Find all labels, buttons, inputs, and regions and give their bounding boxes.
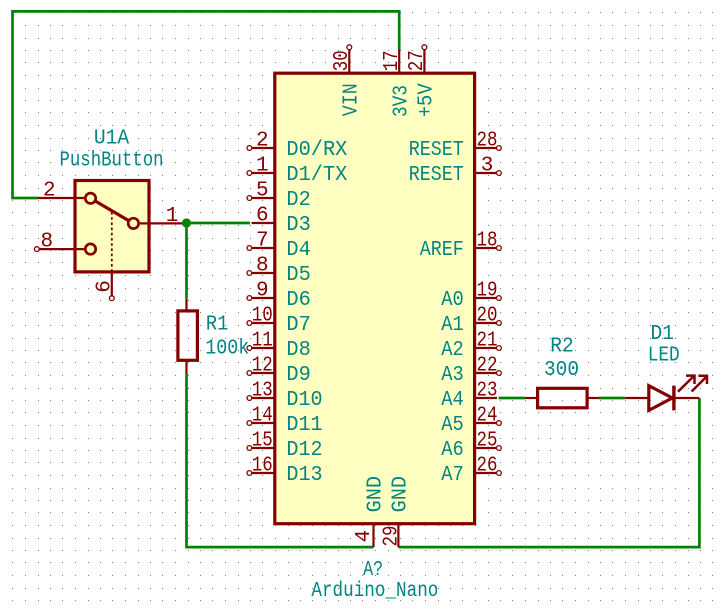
Arduino pin 19 (A0) xyxy=(441,279,501,312)
Arduino pin 16 (D13) xyxy=(247,454,323,487)
Arduino pin 21 (A2) xyxy=(441,329,501,362)
svg-text:300: 300 xyxy=(544,359,579,382)
svg-text:26: 26 xyxy=(477,454,498,477)
svg-text:D6: D6 xyxy=(286,289,310,312)
svg-text:23: 23 xyxy=(477,379,498,402)
Arduino pin 7 (D4) xyxy=(247,229,311,262)
Arduino pin 4 (GND) xyxy=(353,476,388,547)
svg-text:20: 20 xyxy=(477,304,498,327)
Arduino pin 1 (D1/TX) xyxy=(247,154,348,187)
svg-text:A4: A4 xyxy=(441,389,464,412)
svg-text:D1/TX: D1/TX xyxy=(286,164,347,187)
svg-text:+5V: +5V xyxy=(416,83,439,117)
svg-text:9: 9 xyxy=(256,279,269,302)
Arduino pin 25 (A6) xyxy=(441,429,501,462)
svg-text:D11: D11 xyxy=(286,414,322,437)
svg-text:16: 16 xyxy=(252,454,273,477)
svg-text:U1A: U1A xyxy=(94,127,130,150)
svg-text:GND: GND xyxy=(390,476,413,513)
Arduino pin 28 (RESET) xyxy=(409,129,502,162)
svg-text:D7: D7 xyxy=(286,314,310,337)
wire junction node down to R1 top xyxy=(185,223,188,298)
U1A pin 2 xyxy=(38,179,85,202)
svg-text:2: 2 xyxy=(256,129,269,152)
svg-text:PushButton: PushButton xyxy=(60,150,164,173)
Arduino pin 27 (+5V) xyxy=(406,45,439,118)
svg-text:D5: D5 xyxy=(286,264,310,287)
svg-text:100k: 100k xyxy=(205,337,249,360)
Arduino pin 8 (D5) xyxy=(247,254,311,287)
svg-text:7: 7 xyxy=(256,229,269,252)
U1A pin 6 xyxy=(94,272,117,301)
wire Arduino A4 pin 23 to R2 left xyxy=(499,397,526,400)
svg-text:D10: D10 xyxy=(286,389,322,412)
U1A pin 8 xyxy=(34,230,84,253)
svg-text:21: 21 xyxy=(477,329,498,352)
Arduino pin 6 (D3) xyxy=(252,204,311,237)
Arduino pin 10 (D7) xyxy=(247,304,311,337)
svg-text:AREF: AREF xyxy=(420,239,464,262)
svg-text:11: 11 xyxy=(252,329,273,352)
svg-text:8: 8 xyxy=(40,230,53,253)
svg-text:A0: A0 xyxy=(441,289,464,312)
U1A pin 1 xyxy=(140,205,187,228)
Arduino pin 29 (GND) xyxy=(381,476,413,547)
Arduino pin 20 (A1) xyxy=(441,304,501,337)
svg-text:A?: A? xyxy=(363,559,383,582)
resistor R1 xyxy=(178,298,198,373)
svg-text:D13: D13 xyxy=(286,464,322,487)
Arduino pin 3 (RESET) xyxy=(409,154,502,187)
Arduino pin 24 (A5) xyxy=(441,404,501,437)
svg-text:15: 15 xyxy=(252,429,273,452)
svg-text:1: 1 xyxy=(256,154,269,177)
svg-text:29: 29 xyxy=(381,526,404,547)
Arduino pin 18 (AREF) xyxy=(420,229,502,262)
wire junction node to Arduino D3 pin 6 xyxy=(187,222,251,225)
svg-text:24: 24 xyxy=(477,404,498,427)
svg-text:D9: D9 xyxy=(286,364,310,387)
svg-text:19: 19 xyxy=(477,279,498,302)
Arduino pin 11 (D8) xyxy=(247,329,311,362)
Arduino pin 5 (D2) xyxy=(247,179,311,212)
svg-text:D2: D2 xyxy=(286,189,310,212)
svg-text:27: 27 xyxy=(406,50,429,71)
svg-text:D8: D8 xyxy=(286,339,310,362)
svg-text:D4: D4 xyxy=(286,239,310,262)
wire R2 right to LED D1 anode xyxy=(599,397,625,400)
svg-text:2: 2 xyxy=(43,179,56,202)
LED D1 xyxy=(625,376,707,411)
svg-text:3: 3 xyxy=(481,154,494,177)
svg-text:10: 10 xyxy=(252,304,273,327)
Arduino pin 23 (A4) xyxy=(441,379,497,412)
svg-text:13: 13 xyxy=(252,379,273,402)
svg-text:GND: GND xyxy=(365,476,388,513)
Arduino pin 13 (D10) xyxy=(247,379,323,412)
Arduino pin 2 (D0/RX) xyxy=(247,129,348,162)
wire from U1A pin2 up and across top to Arduino 3V3 pin 17 xyxy=(13,11,400,198)
svg-text:30: 30 xyxy=(331,50,354,71)
svg-text:12: 12 xyxy=(252,354,273,377)
svg-text:D3: D3 xyxy=(286,214,310,237)
svg-text:4: 4 xyxy=(353,530,376,543)
svg-text:A1: A1 xyxy=(441,314,464,337)
svg-text:18: 18 xyxy=(477,229,498,252)
svg-text:5: 5 xyxy=(256,179,269,202)
svg-text:D0/RX: D0/RX xyxy=(286,139,347,162)
svg-text:A6: A6 xyxy=(441,439,464,462)
svg-text:VIN: VIN xyxy=(341,83,364,116)
Arduino pin 17 (3V3) xyxy=(381,49,414,117)
svg-text:3V3: 3V3 xyxy=(390,85,413,117)
Arduino pin 22 (A3) xyxy=(441,354,501,387)
wire R1 bottom to Arduino GND pin 4 xyxy=(187,374,374,548)
svg-text:22: 22 xyxy=(477,354,498,377)
Arduino pin 15 (D12) xyxy=(247,429,323,462)
svg-text:Arduino_Nano: Arduino_Nano xyxy=(311,580,438,603)
resistor R2 xyxy=(525,388,599,408)
Arduino pin 30 (VIN) xyxy=(331,45,364,117)
Arduino Nano A? body xyxy=(275,73,475,524)
svg-text:A7: A7 xyxy=(441,464,464,487)
svg-text:R1: R1 xyxy=(206,314,229,337)
svg-text:RESET: RESET xyxy=(409,139,464,162)
svg-text:D1: D1 xyxy=(651,323,675,346)
svg-text:17: 17 xyxy=(381,50,404,71)
wire Arduino GND pin 29 to LED D1 cathode xyxy=(398,398,699,547)
Arduino pin 9 (D6) xyxy=(247,279,311,312)
svg-text:D12: D12 xyxy=(286,439,322,462)
svg-text:LED: LED xyxy=(648,345,680,368)
svg-text:R2: R2 xyxy=(550,336,574,359)
svg-text:8: 8 xyxy=(256,254,269,277)
Arduino pin 12 (D9) xyxy=(247,354,311,387)
svg-text:25: 25 xyxy=(477,429,498,452)
pushbutton U1A body xyxy=(75,181,149,272)
svg-text:A5: A5 xyxy=(441,414,464,437)
junction node at U1A pin1 / D3 / R1 xyxy=(182,218,191,227)
svg-text:6: 6 xyxy=(94,280,117,293)
svg-text:6: 6 xyxy=(256,204,269,227)
svg-text:A3: A3 xyxy=(441,364,464,387)
svg-text:28: 28 xyxy=(477,129,498,152)
svg-text:A2: A2 xyxy=(441,339,464,362)
svg-text:1: 1 xyxy=(166,205,179,228)
svg-text:RESET: RESET xyxy=(409,164,464,187)
Arduino pin 14 (D11) xyxy=(247,404,323,437)
Arduino pin 26 (A7) xyxy=(441,454,501,487)
svg-text:14: 14 xyxy=(252,404,273,427)
